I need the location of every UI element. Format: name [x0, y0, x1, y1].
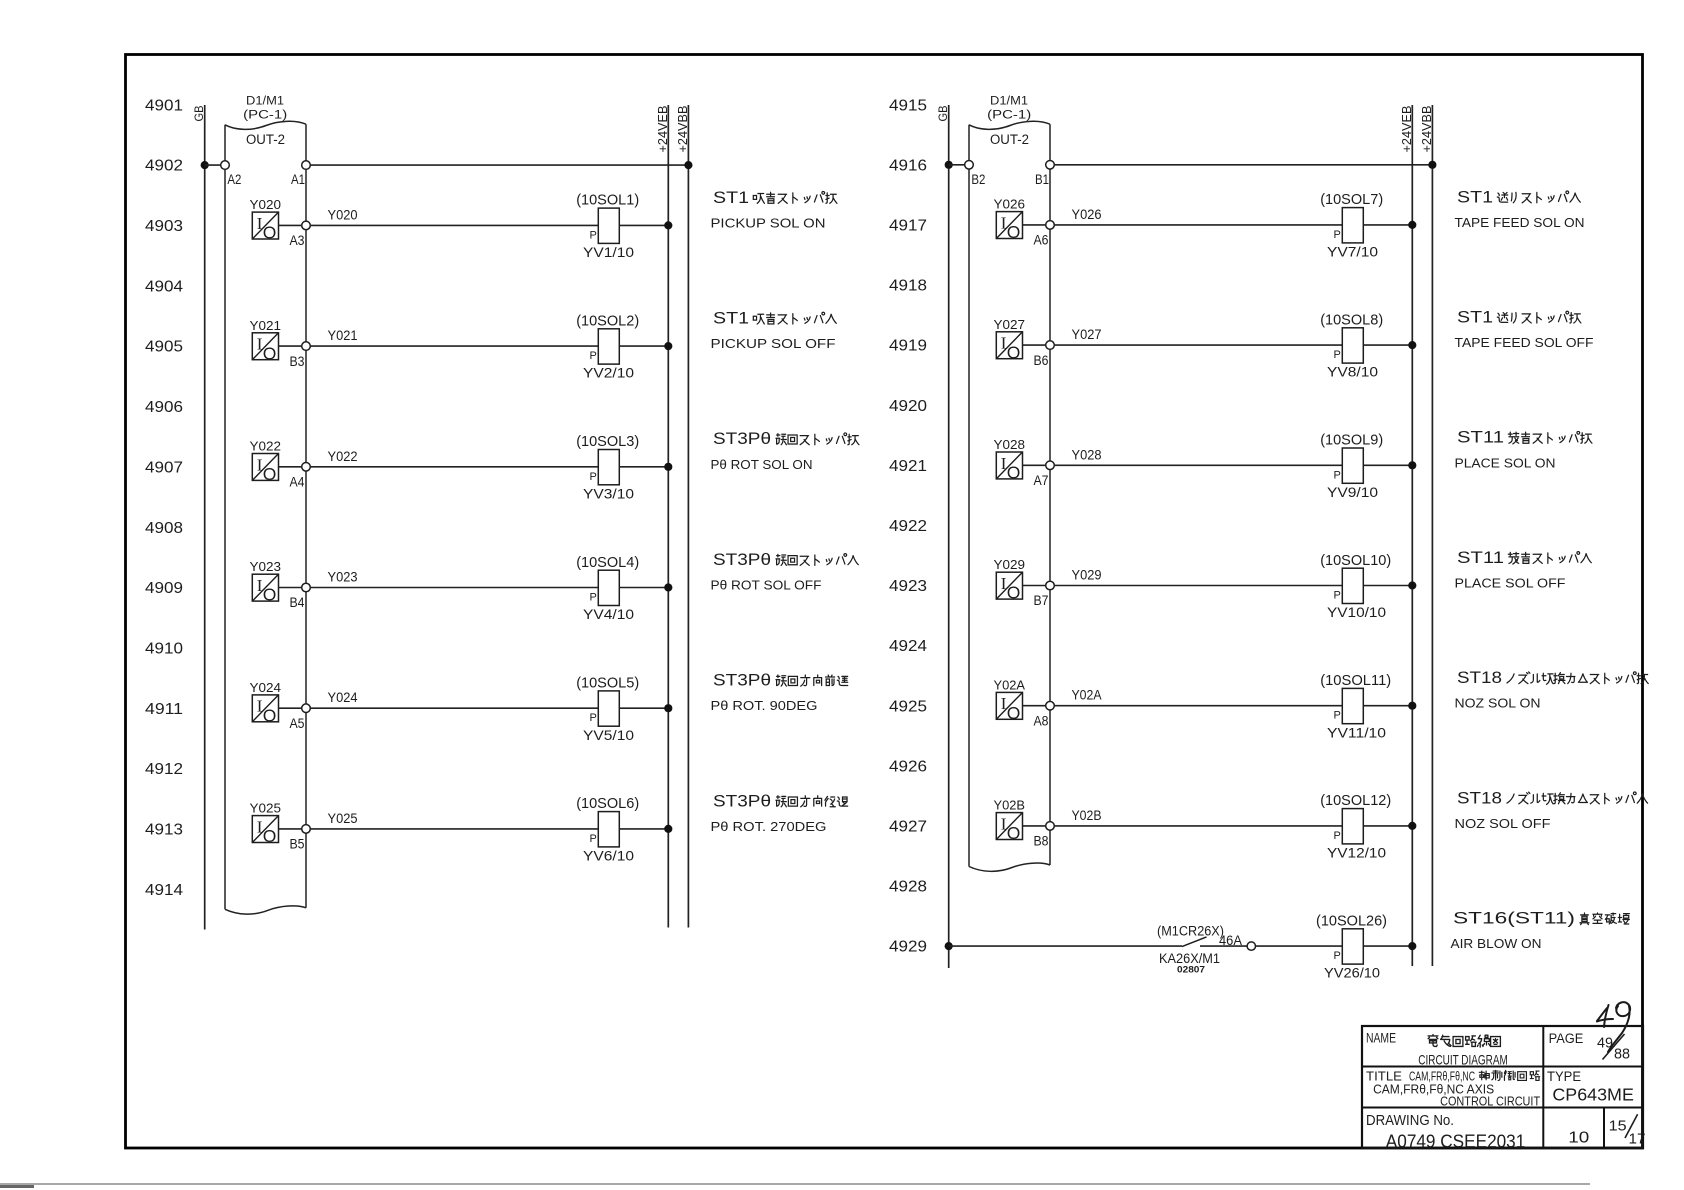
solenoid coil (10SOL10) YV10/10 — [1342, 568, 1363, 603]
svg-text:Y025: Y025 — [250, 801, 282, 816]
svg-text:P: P — [1334, 830, 1341, 842]
svg-text:+24VEB: +24VEB — [655, 106, 670, 153]
wire contact to terminal B8 — [1023, 825, 1046, 827]
svg-text:4919: 4919 — [889, 338, 927, 355]
svg-text:4926: 4926 — [889, 758, 927, 775]
terminal A6 — [1046, 221, 1055, 230]
wire contact to coil 10SOL26 — [1256, 945, 1343, 947]
+24VBB supply rail — [1431, 105, 1433, 966]
wire contact to terminal A7 — [1023, 464, 1046, 466]
PLC output module D1/M1 (PC-1) OUT-2 box — [224, 125, 226, 910]
terminal B8 — [1046, 822, 1055, 831]
wire Y028 rung to coil — [1054, 464, 1342, 466]
wire module to +24VBB rail — [310, 164, 688, 166]
svg-text:4912: 4912 — [145, 761, 183, 778]
wire coil to +24VEB rail — [1363, 945, 1412, 947]
terminal A2 — [221, 161, 230, 170]
wire module to +24VBB rail — [1054, 164, 1432, 166]
svg-text:(M1CR26X): (M1CR26X) — [1157, 923, 1224, 938]
node +24VEB junction rung 4921 — [1408, 461, 1416, 469]
svg-text:4921: 4921 — [889, 458, 927, 475]
svg-text:ST16(ST11): ST16(ST11) — [1453, 910, 1575, 928]
svg-text:GB: GB — [936, 106, 950, 122]
wire GB to contact KA26X — [949, 945, 1182, 947]
net label GB — [936, 106, 950, 122]
node +24VEB junction rung 4919 — [1408, 341, 1416, 349]
node +24VEB junction rung 4913 — [664, 825, 672, 833]
svg-text:(10SOL10): (10SOL10) — [1320, 552, 1391, 569]
svg-text:YV9/10: YV9/10 — [1327, 484, 1378, 500]
svg-text:D1/M1: D1/M1 — [990, 96, 1028, 108]
+24VEB supply rail — [667, 105, 669, 928]
svg-text:P: P — [1334, 590, 1341, 602]
svg-text:Y027: Y027 — [1072, 327, 1102, 342]
svg-text:(10SOL12): (10SOL12) — [1320, 792, 1391, 809]
svg-text:(10SOL3): (10SOL3) — [576, 433, 639, 450]
svg-text:10: 10 — [1568, 1129, 1589, 1146]
svg-text:P: P — [590, 471, 597, 483]
wire Y02B rung to coil — [1054, 825, 1342, 827]
svg-text:P: P — [590, 229, 597, 241]
svg-text:4909: 4909 — [145, 580, 183, 597]
svg-text:AIR BLOW ON: AIR BLOW ON — [1451, 936, 1542, 951]
terminal B3 — [302, 342, 311, 351]
svg-text:Y020: Y020 — [250, 197, 282, 212]
svg-text:4920: 4920 — [889, 398, 927, 415]
relay contact KA26X/M1 (NO) — [1182, 937, 1207, 947]
svg-text:B5: B5 — [290, 837, 305, 852]
scan edge artifact — [0, 1183, 1590, 1185]
svg-text:+24VBB: +24VBB — [1419, 106, 1434, 153]
svg-text:4916: 4916 — [889, 157, 927, 174]
svg-text:P: P — [1334, 349, 1341, 361]
svg-text:Y022: Y022 — [250, 439, 282, 454]
output contact Y027 (I/O symbol) — [996, 332, 1022, 359]
svg-text:Y029: Y029 — [994, 557, 1026, 572]
svg-text:Y021: Y021 — [328, 328, 358, 343]
wire coil to +24VEB rail — [1363, 464, 1412, 466]
svg-text:O: O — [1007, 342, 1021, 362]
wire Y020 rung to coil — [310, 224, 598, 226]
svg-text:4914: 4914 — [145, 882, 183, 899]
svg-text:Y023: Y023 — [328, 570, 358, 585]
svg-text:Y026: Y026 — [994, 197, 1026, 212]
svg-text:A6: A6 — [1034, 233, 1049, 248]
svg-text:YV1/10: YV1/10 — [583, 244, 634, 260]
svg-text:A0749 CSEE2031: A0749 CSEE2031 — [1386, 1131, 1526, 1152]
svg-text:O: O — [1007, 463, 1021, 483]
terminal B1 — [1046, 161, 1055, 170]
svg-text:B6: B6 — [1034, 353, 1049, 368]
svg-text:A3: A3 — [290, 233, 305, 248]
svg-text:Y028: Y028 — [994, 437, 1026, 452]
svg-text:4924: 4924 — [889, 638, 927, 655]
svg-text:ST1: ST1 — [713, 310, 749, 328]
output contact Y028 (I/O symbol) — [996, 452, 1022, 479]
svg-text:Pθ ROT. 90DEG: Pθ ROT. 90DEG — [711, 698, 818, 713]
svg-text:46A: 46A — [1219, 933, 1242, 948]
svg-text:NOZ SOL ON: NOZ SOL ON — [1455, 696, 1541, 711]
svg-text:YV11/10: YV11/10 — [1327, 724, 1386, 740]
solenoid coil (10SOL5) YV5/10 — [598, 691, 619, 726]
svg-text:17: 17 — [1629, 1131, 1646, 1147]
svg-text:TAPE FEED SOL ON: TAPE FEED SOL ON — [1455, 215, 1585, 230]
svg-text:(10SOL6): (10SOL6) — [576, 795, 639, 812]
node +24VEB junction rung 4911 — [664, 704, 672, 712]
svg-text:15: 15 — [1609, 1119, 1627, 1135]
wire coil to +24VEB rail — [619, 466, 668, 468]
net label +24VEB — [1399, 106, 1414, 153]
svg-text:P: P — [1334, 710, 1341, 722]
node +24VEB junction rung 4917 — [1408, 221, 1416, 229]
svg-text:4913: 4913 — [145, 822, 183, 839]
svg-text:4908: 4908 — [145, 520, 183, 537]
wire GB to module — [205, 164, 221, 166]
wire contact to terminal A4 — [279, 466, 302, 468]
node GB junction rung 4916 — [945, 161, 953, 169]
svg-text:4915: 4915 — [889, 97, 927, 114]
wire contact to terminal B5 — [279, 828, 302, 830]
svg-text:O: O — [263, 343, 277, 363]
node +24VBB junction — [684, 161, 692, 169]
svg-text:O: O — [263, 705, 277, 725]
net label +24VBB — [1419, 106, 1434, 153]
svg-text:(10SOL8): (10SOL8) — [1320, 311, 1383, 328]
svg-text:ST3Pθ: ST3Pθ — [713, 672, 771, 690]
solenoid coil (10SOL2) YV2/10 — [598, 329, 619, 364]
svg-text:Y027: Y027 — [994, 317, 1026, 332]
node +24VEB junction rung 4923 — [1408, 581, 1416, 589]
wire contact to terminal A3 — [279, 224, 302, 226]
svg-text:Y029: Y029 — [1072, 568, 1102, 583]
svg-text:Y028: Y028 — [1072, 447, 1102, 462]
output contact Y02A (I/O symbol) — [996, 692, 1022, 719]
svg-text:Y024: Y024 — [250, 680, 282, 695]
svg-text:(10SOL11): (10SOL11) — [1320, 672, 1391, 689]
wire coil to +24VEB rail — [1363, 224, 1412, 226]
svg-text:ST3Pθ: ST3Pθ — [713, 551, 771, 569]
svg-text:ST18: ST18 — [1457, 789, 1502, 807]
output contact Y026 (I/O symbol) — [996, 212, 1022, 239]
svg-text:PICKUP SOL ON: PICKUP SOL ON — [711, 215, 826, 230]
solenoid coil (10SOL8) YV8/10 — [1342, 328, 1363, 363]
solenoid coil (10SOL6) YV6/10 — [598, 812, 619, 847]
node +24VEB junction rung 4903 — [664, 221, 672, 229]
svg-text:(10SOL1): (10SOL1) — [576, 192, 639, 209]
svg-text:4917: 4917 — [889, 218, 927, 235]
svg-text:CIRCUIT DIAGRAM: CIRCUIT DIAGRAM — [1418, 1052, 1508, 1068]
svg-text:GB: GB — [192, 106, 206, 122]
svg-text:4910: 4910 — [145, 641, 183, 658]
svg-text:Y02A: Y02A — [994, 677, 1026, 692]
svg-text:NAME: NAME — [1366, 1031, 1396, 1046]
contact terminal circle 46A — [1247, 942, 1255, 950]
svg-text:(10SOL5): (10SOL5) — [576, 675, 639, 692]
wire Y029 rung to coil — [1054, 585, 1342, 587]
wire Y02A rung to coil — [1054, 705, 1342, 707]
svg-text:YV12/10: YV12/10 — [1327, 845, 1386, 861]
net label GB — [192, 106, 206, 122]
svg-text:(10SOL7): (10SOL7) — [1320, 191, 1383, 208]
solenoid coil (10SOL4) YV4/10 — [598, 570, 619, 605]
svg-text:4922: 4922 — [889, 518, 927, 535]
svg-text:YV3/10: YV3/10 — [583, 485, 634, 501]
wire coil to +24VEB rail — [619, 828, 668, 830]
svg-text:YV4/10: YV4/10 — [583, 606, 634, 622]
svg-text:Y026: Y026 — [1072, 207, 1102, 222]
svg-text:P: P — [590, 592, 597, 604]
wire Y023 rung to coil — [310, 587, 598, 589]
svg-text:P: P — [590, 712, 597, 724]
svg-text:P: P — [1334, 469, 1341, 481]
terminal A1 — [302, 161, 311, 170]
terminal B2 — [965, 161, 974, 170]
svg-text:A2: A2 — [227, 172, 241, 187]
svg-text:ST3Pθ: ST3Pθ — [713, 792, 771, 810]
svg-text:(10SOL26): (10SOL26) — [1316, 912, 1387, 929]
svg-text:Y021: Y021 — [250, 318, 282, 333]
svg-text:YV8/10: YV8/10 — [1327, 364, 1378, 380]
svg-text:PAGE: PAGE — [1549, 1031, 1584, 1046]
svg-text:NOZ SOL OFF: NOZ SOL OFF — [1455, 816, 1551, 831]
svg-text:4929: 4929 — [889, 939, 927, 956]
terminal B7 — [1046, 581, 1055, 590]
svg-text:P: P — [590, 833, 597, 845]
svg-text:O: O — [1007, 583, 1021, 603]
terminal A5 — [302, 704, 311, 713]
terminal B6 — [1046, 341, 1055, 350]
svg-text:P: P — [1334, 950, 1341, 962]
svg-text:4928: 4928 — [889, 879, 927, 896]
svg-text:+24VEB: +24VEB — [1399, 106, 1414, 153]
wire contact to terminal B6 — [1023, 344, 1046, 346]
output contact Y021 (I/O symbol) — [252, 333, 278, 360]
wire coil to +24VEB rail — [619, 345, 668, 347]
output contact Y029 (I/O symbol) — [996, 572, 1022, 599]
svg-text:OUT-2: OUT-2 — [246, 132, 285, 147]
svg-text:4906: 4906 — [145, 399, 183, 416]
svg-text:O: O — [263, 826, 277, 846]
svg-text:PLACE SOL ON: PLACE SOL ON — [1455, 455, 1556, 470]
wire contact to terminal B4 — [279, 587, 302, 589]
svg-text:ST18: ST18 — [1457, 669, 1502, 687]
svg-text:4918: 4918 — [889, 278, 927, 295]
svg-text:TYPE: TYPE — [1547, 1069, 1581, 1084]
wire GB to module — [949, 164, 965, 166]
wire Y024 rung to coil — [310, 707, 598, 709]
svg-text:P: P — [590, 350, 597, 362]
wire coil to +24VEB rail — [1363, 825, 1412, 827]
svg-text:A5: A5 — [290, 716, 305, 731]
svg-text:(10SOL2): (10SOL2) — [576, 312, 639, 329]
svg-text:4907: 4907 — [145, 459, 183, 476]
svg-text:Y02B: Y02B — [994, 798, 1026, 813]
+24VBB supply rail — [687, 105, 689, 928]
net label +24VEB — [655, 106, 670, 153]
svg-text:CONTROL CIRCUIT: CONTROL CIRCUIT — [1440, 1093, 1540, 1108]
output contact Y02B (I/O symbol) — [996, 813, 1022, 840]
svg-text:4927: 4927 — [889, 819, 927, 836]
node +24VEB junction rung 4905 — [664, 342, 672, 350]
svg-text:DRAWING No.: DRAWING No. — [1366, 1113, 1454, 1129]
node +24VEB junction rung 4925 — [1408, 702, 1416, 710]
svg-text:4904: 4904 — [145, 278, 183, 295]
svg-text:4903: 4903 — [145, 218, 183, 235]
wire Y027 rung to coil — [1054, 344, 1342, 346]
wire coil to +24VEB rail — [619, 224, 668, 226]
solenoid coil (10SOL11) YV11/10 — [1342, 688, 1363, 723]
node GB junction rung 4902 — [201, 161, 209, 169]
wire coil to +24VEB rail — [1363, 585, 1412, 587]
svg-text:B2: B2 — [971, 172, 985, 187]
output contact Y020 (I/O symbol) — [252, 212, 278, 239]
PLC output module D1/M1 (PC-1) OUT-2 box — [968, 125, 970, 867]
svg-text:B3: B3 — [290, 354, 305, 369]
svg-text:ST3Pθ: ST3Pθ — [713, 430, 771, 448]
svg-text:ST11: ST11 — [1457, 429, 1504, 447]
wire coil to +24VEB rail — [619, 707, 668, 709]
wire contact to terminal A6 — [1023, 224, 1046, 226]
svg-text:O: O — [1007, 222, 1021, 242]
svg-text:Y025: Y025 — [328, 811, 358, 826]
terminal A8 — [1046, 701, 1055, 710]
wire contact to terminal B7 — [1023, 585, 1046, 587]
terminal A4 — [302, 463, 311, 472]
svg-text:+24VBB: +24VBB — [675, 106, 690, 153]
output contact Y025 (I/O symbol) — [252, 816, 278, 843]
svg-text:ST1: ST1 — [1457, 188, 1493, 206]
svg-text:CP643ME: CP643ME — [1552, 1085, 1634, 1105]
node +24VEB junction rung 4927 — [1408, 822, 1416, 830]
svg-text:A8: A8 — [1034, 713, 1049, 728]
svg-text:Pθ ROT. 270DEG: Pθ ROT. 270DEG — [711, 819, 827, 834]
svg-text:(10SOL9): (10SOL9) — [1320, 432, 1383, 449]
wire contact to terminal B3 — [279, 345, 302, 347]
svg-text:4901: 4901 — [145, 97, 183, 114]
JP text: axis control circuit — [1479, 1071, 1489, 1080]
svg-text:A4: A4 — [290, 475, 305, 490]
output contact Y023 (I/O symbol) — [252, 574, 278, 601]
wire Y021 rung to coil — [310, 345, 598, 347]
svg-text:Y02A: Y02A — [1072, 688, 1102, 703]
svg-text:4923: 4923 — [889, 578, 927, 595]
svg-text:ST1: ST1 — [1457, 309, 1493, 327]
node +24VEB junction rung 4907 — [664, 463, 672, 471]
svg-text:TAPE FEED SOL OFF: TAPE FEED SOL OFF — [1455, 335, 1594, 350]
solenoid coil (10SOL3) YV3/10 — [598, 450, 619, 485]
svg-text:(PC-1): (PC-1) — [987, 110, 1031, 122]
svg-text:O: O — [263, 585, 277, 605]
svg-text:Y023: Y023 — [250, 559, 282, 574]
net label +24VBB — [675, 106, 690, 153]
node +24VBB junction — [1428, 161, 1436, 169]
title block — [1362, 1026, 1643, 1148]
svg-text:O: O — [263, 464, 277, 484]
svg-text:Y022: Y022 — [328, 449, 358, 464]
svg-text:YV5/10: YV5/10 — [583, 727, 634, 743]
terminal A3 — [302, 221, 311, 230]
svg-text:ST1: ST1 — [713, 189, 749, 207]
svg-text:(PC-1): (PC-1) — [243, 110, 287, 122]
svg-text:O: O — [1007, 823, 1021, 843]
GB bus rail — [204, 105, 206, 930]
wire contact to terminal A8 — [1023, 705, 1046, 707]
svg-text:B4: B4 — [290, 595, 305, 610]
svg-text:Pθ ROT SOL ON: Pθ ROT SOL ON — [711, 457, 813, 472]
svg-text:B7: B7 — [1034, 593, 1049, 608]
terminal B5 — [302, 825, 311, 834]
terminal B4 — [302, 583, 311, 592]
solenoid coil (10SOL12) YV12/10 — [1342, 809, 1363, 844]
svg-text:Pθ ROT SOL OFF: Pθ ROT SOL OFF — [711, 578, 822, 593]
node +24VEB junction rung 4909 — [664, 583, 672, 591]
svg-text:88: 88 — [1614, 1046, 1630, 1063]
svg-text:D1/M1: D1/M1 — [246, 96, 284, 108]
svg-text:B1: B1 — [1035, 172, 1049, 187]
svg-text:YV7/10: YV7/10 — [1327, 244, 1378, 260]
svg-text:Y020: Y020 — [328, 207, 358, 222]
output contact Y022 (I/O symbol) — [252, 454, 278, 481]
svg-text:Y024: Y024 — [328, 690, 358, 705]
terminal A7 — [1046, 461, 1055, 470]
solenoid coil (10SOL26) YV26/10 — [1342, 929, 1363, 964]
output contact Y024 (I/O symbol) — [252, 695, 278, 722]
JP text: electric circuit diagram — [1428, 1035, 1438, 1047]
svg-text:A7: A7 — [1034, 473, 1049, 488]
wire Y022 rung to coil — [310, 466, 598, 468]
svg-text:PICKUP SOL OFF: PICKUP SOL OFF — [711, 336, 836, 351]
svg-text:OUT-2: OUT-2 — [990, 132, 1029, 147]
GB bus rail — [948, 105, 950, 968]
svg-text:4905: 4905 — [145, 339, 183, 356]
wire coil to +24VEB rail — [1363, 705, 1412, 707]
solenoid coil (10SOL1) YV1/10 — [598, 208, 619, 243]
svg-text:(10SOL4): (10SOL4) — [576, 554, 639, 571]
svg-text:YV6/10: YV6/10 — [583, 848, 634, 864]
svg-text:Y02B: Y02B — [1072, 808, 1102, 823]
solenoid coil (10SOL7) YV7/10 — [1342, 208, 1363, 243]
+24VEB supply rail — [1411, 105, 1413, 966]
wire Y026 rung to coil — [1054, 224, 1342, 226]
svg-text:B8: B8 — [1034, 834, 1049, 849]
wire coil to +24VEB rail — [619, 587, 668, 589]
svg-text:4902: 4902 — [145, 158, 183, 175]
node +24VEB junction rung 4929 — [1408, 942, 1416, 950]
wire contact to terminal A5 — [279, 707, 302, 709]
svg-text:4925: 4925 — [889, 698, 927, 715]
handwritten page number 49 — [1597, 1002, 1630, 1052]
svg-text:4911: 4911 — [145, 701, 183, 718]
svg-text:ST11: ST11 — [1457, 549, 1504, 567]
svg-text:PLACE SOL OFF: PLACE SOL OFF — [1455, 576, 1566, 591]
svg-text:YV26/10: YV26/10 — [1324, 965, 1380, 981]
svg-text:P: P — [1334, 229, 1341, 241]
svg-text:O: O — [263, 223, 277, 243]
svg-text:02807: 02807 — [1177, 965, 1205, 976]
svg-text:YV10/10: YV10/10 — [1327, 604, 1386, 620]
svg-text:YV2/10: YV2/10 — [583, 365, 634, 381]
wire Y025 rung to coil — [310, 828, 598, 830]
svg-text:O: O — [1007, 703, 1021, 723]
svg-text:A1: A1 — [291, 172, 305, 187]
node GB junction rung 4929 — [945, 942, 953, 950]
wire coil to +24VEB rail — [1363, 344, 1412, 346]
solenoid coil (10SOL9) YV9/10 — [1342, 448, 1363, 483]
